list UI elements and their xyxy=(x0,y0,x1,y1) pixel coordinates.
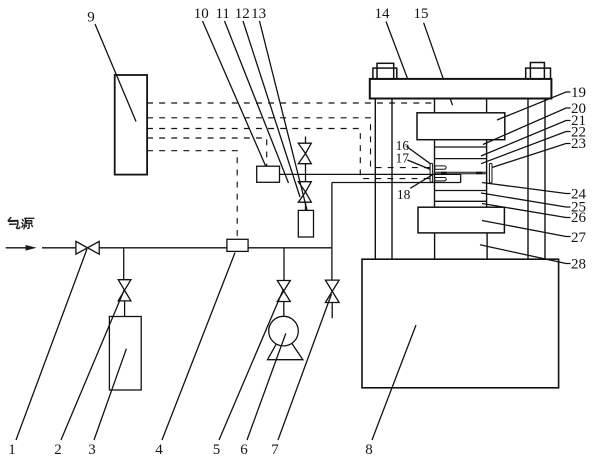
valve stem upper xyxy=(305,137,307,144)
svg-text:19: 19 xyxy=(571,85,586,101)
specimen seal right xyxy=(476,172,483,174)
pump 6 xyxy=(269,316,299,346)
svg-text:23: 23 xyxy=(571,136,586,152)
lower platen 27 xyxy=(418,207,504,233)
electrode bar 17 xyxy=(435,166,446,169)
valve 7 xyxy=(325,280,339,302)
machine base 8 xyxy=(362,259,559,388)
leader 6 xyxy=(247,333,286,440)
leader 26 xyxy=(482,204,571,218)
leader to ram 15 xyxy=(424,23,453,106)
gas source label yuan xyxy=(22,218,34,229)
stack line 21 xyxy=(435,158,487,160)
dashed signal line 3 xyxy=(147,129,430,179)
leader 4 xyxy=(162,253,235,440)
valve 2 xyxy=(118,280,131,301)
leader 21 xyxy=(481,121,571,157)
seal plate 23 right capsule xyxy=(489,163,492,183)
leader 22 xyxy=(481,132,571,164)
svg-text:10: 10 xyxy=(194,6,209,22)
stack left edge xyxy=(434,140,436,208)
vent outlet pipe xyxy=(331,303,333,319)
svg-text:11: 11 xyxy=(215,6,229,22)
support column left below platen xyxy=(434,233,436,259)
valve stem lower xyxy=(305,174,307,181)
gas pipe A to specimen xyxy=(280,173,461,175)
gas source label qi xyxy=(8,218,19,229)
gas pipe B return xyxy=(331,183,333,248)
branch pipe to valve 2 xyxy=(123,248,125,280)
svg-text:15: 15 xyxy=(414,6,429,22)
right bolt inner xyxy=(530,63,544,79)
dashed signal line 1 xyxy=(147,102,434,104)
branch pipe to valve 5 xyxy=(283,248,285,281)
leader 8 xyxy=(372,325,416,440)
leader 3 xyxy=(94,349,126,440)
stack line 26 xyxy=(435,200,487,202)
sensor cylinder 13 xyxy=(298,210,313,237)
svg-text:14: 14 xyxy=(375,6,391,22)
left bolt inner xyxy=(377,63,394,79)
leader to component 10 xyxy=(203,21,267,168)
leader to component 9 xyxy=(95,24,136,122)
pipe valve5 to pump 6 xyxy=(283,302,285,317)
valve 11 lower xyxy=(298,182,311,203)
left bolt outer xyxy=(373,68,397,79)
component 9 data acquisition box xyxy=(115,75,147,175)
svg-text:18: 18 xyxy=(397,187,411,202)
right column inner xyxy=(527,99,529,260)
svg-text:3: 3 xyxy=(88,442,96,458)
valve 12 upper xyxy=(298,143,311,164)
pipe end vertical xyxy=(460,174,462,182)
left column inner xyxy=(391,99,393,260)
pump 6 stand xyxy=(268,331,303,360)
dashed signal line 4 xyxy=(147,138,267,166)
leader 1 xyxy=(16,249,87,440)
leader to upper platen 19 xyxy=(497,92,571,120)
right bolt outer xyxy=(526,68,551,79)
svg-text:6: 6 xyxy=(240,442,248,458)
valve stem to pipe xyxy=(305,164,307,175)
main gas pipe continuation xyxy=(248,247,332,249)
specimen bottom line xyxy=(435,173,487,175)
svg-text:1: 1 xyxy=(8,442,16,458)
dashed signal line 5 xyxy=(147,151,237,240)
leader 25 xyxy=(481,193,571,207)
leader 23 xyxy=(492,144,571,168)
svg-text:2: 2 xyxy=(54,442,62,458)
regulator box 10 xyxy=(257,166,280,182)
leader 7 xyxy=(278,294,332,440)
leader to electrode bar 18 xyxy=(410,175,432,188)
leader to electrode bar 17 xyxy=(407,160,430,170)
leader 2 xyxy=(61,289,125,440)
ram left edge xyxy=(434,99,436,113)
leader to component 12 xyxy=(243,21,300,197)
leader to seal plate 16 xyxy=(406,146,430,163)
support column right below platen xyxy=(486,233,488,259)
valve 5 xyxy=(277,281,290,302)
tank 3 xyxy=(109,317,141,391)
svg-text:28: 28 xyxy=(571,257,586,273)
svg-text:5: 5 xyxy=(213,442,221,458)
valve stem to sensor xyxy=(305,202,307,210)
svg-text:13: 13 xyxy=(251,6,266,22)
main gas pipe xyxy=(99,247,227,249)
upper platen 19 xyxy=(417,113,505,140)
left column outer xyxy=(374,99,376,260)
right column outer xyxy=(544,99,546,260)
dashed signal line 2 xyxy=(147,118,430,168)
specimen top line xyxy=(435,171,487,173)
specimen seal left xyxy=(441,172,447,174)
pipe valve2 to tank 3 xyxy=(124,301,126,317)
vent riser pipe xyxy=(331,248,333,280)
svg-text:8: 8 xyxy=(365,442,373,458)
svg-text:4: 4 xyxy=(155,442,163,458)
leader to component 11 xyxy=(225,21,289,183)
leader 27 xyxy=(482,221,571,237)
leader 20 xyxy=(483,108,571,145)
press top plate 14 xyxy=(370,79,552,99)
stack right edge xyxy=(486,140,488,208)
pipe to valve 1 xyxy=(42,247,76,249)
svg-text:9: 9 xyxy=(87,10,95,26)
valve 1 xyxy=(76,241,99,254)
svg-text:17: 17 xyxy=(395,151,409,166)
svg-text:26: 26 xyxy=(571,210,587,226)
leader 28 xyxy=(480,245,571,264)
gas inlet arrow xyxy=(6,247,27,249)
seal plate 16 left capsule xyxy=(430,163,433,182)
svg-text:12: 12 xyxy=(235,6,250,22)
svg-text:7: 7 xyxy=(271,442,279,458)
stack line 20 xyxy=(435,146,487,148)
leader 5 xyxy=(219,289,284,440)
transducer 4 xyxy=(227,239,248,251)
stack line 25 xyxy=(435,190,487,192)
leader to top plate 14 xyxy=(386,22,412,92)
ram right edge xyxy=(486,99,488,113)
svg-text:27: 27 xyxy=(571,230,587,246)
electrode bar 18 xyxy=(435,178,446,181)
leader to component 13 xyxy=(260,21,309,214)
leader 24 xyxy=(482,183,571,194)
